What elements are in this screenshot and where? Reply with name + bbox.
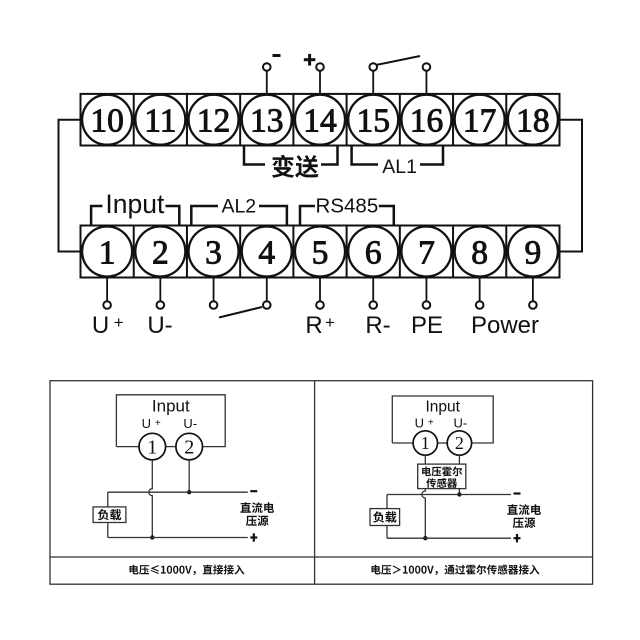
svg-text:AL2: AL2 bbox=[221, 196, 256, 218]
svg-text:U: U bbox=[92, 312, 109, 339]
svg-text:+: + bbox=[114, 313, 124, 332]
svg-text:15: 15 bbox=[356, 103, 390, 140]
svg-text:2: 2 bbox=[455, 433, 464, 453]
svg-text:1: 1 bbox=[421, 433, 430, 453]
svg-text:4: 4 bbox=[258, 235, 275, 272]
svg-text:U: U bbox=[142, 416, 151, 431]
svg-text:AL1: AL1 bbox=[382, 156, 417, 178]
svg-text:U-: U- bbox=[183, 416, 197, 431]
svg-text:U-: U- bbox=[454, 416, 468, 431]
svg-text:1: 1 bbox=[147, 436, 157, 458]
svg-text:18: 18 bbox=[516, 103, 550, 140]
svg-text:8: 8 bbox=[471, 235, 488, 272]
svg-text:5: 5 bbox=[312, 235, 329, 272]
svg-text:RS485: RS485 bbox=[316, 195, 379, 218]
svg-text:10: 10 bbox=[90, 103, 124, 140]
svg-text:2: 2 bbox=[152, 235, 169, 272]
svg-text:1: 1 bbox=[99, 235, 116, 272]
svg-text:Power: Power bbox=[471, 312, 539, 339]
svg-text:7: 7 bbox=[418, 235, 435, 272]
svg-text:U-: U- bbox=[147, 312, 172, 339]
svg-text:U: U bbox=[415, 416, 424, 431]
svg-text:12: 12 bbox=[197, 103, 231, 140]
svg-text:R-: R- bbox=[365, 312, 390, 339]
svg-text:Input: Input bbox=[105, 189, 165, 219]
svg-text:2: 2 bbox=[184, 436, 194, 458]
svg-text:PE: PE bbox=[411, 312, 443, 339]
svg-text:R: R bbox=[305, 312, 322, 339]
svg-text:3: 3 bbox=[205, 235, 222, 272]
svg-text:17: 17 bbox=[463, 103, 497, 140]
svg-text:16: 16 bbox=[410, 103, 444, 140]
svg-text:14: 14 bbox=[303, 103, 337, 140]
svg-text:+: + bbox=[428, 418, 434, 429]
svg-text:6: 6 bbox=[365, 235, 382, 272]
svg-text:11: 11 bbox=[144, 103, 176, 140]
svg-text:+: + bbox=[155, 418, 161, 429]
svg-text:13: 13 bbox=[250, 103, 284, 140]
svg-text:Input: Input bbox=[426, 398, 461, 415]
svg-text:9: 9 bbox=[525, 235, 542, 272]
svg-text:Input: Input bbox=[152, 396, 190, 415]
svg-text:+: + bbox=[325, 313, 335, 332]
